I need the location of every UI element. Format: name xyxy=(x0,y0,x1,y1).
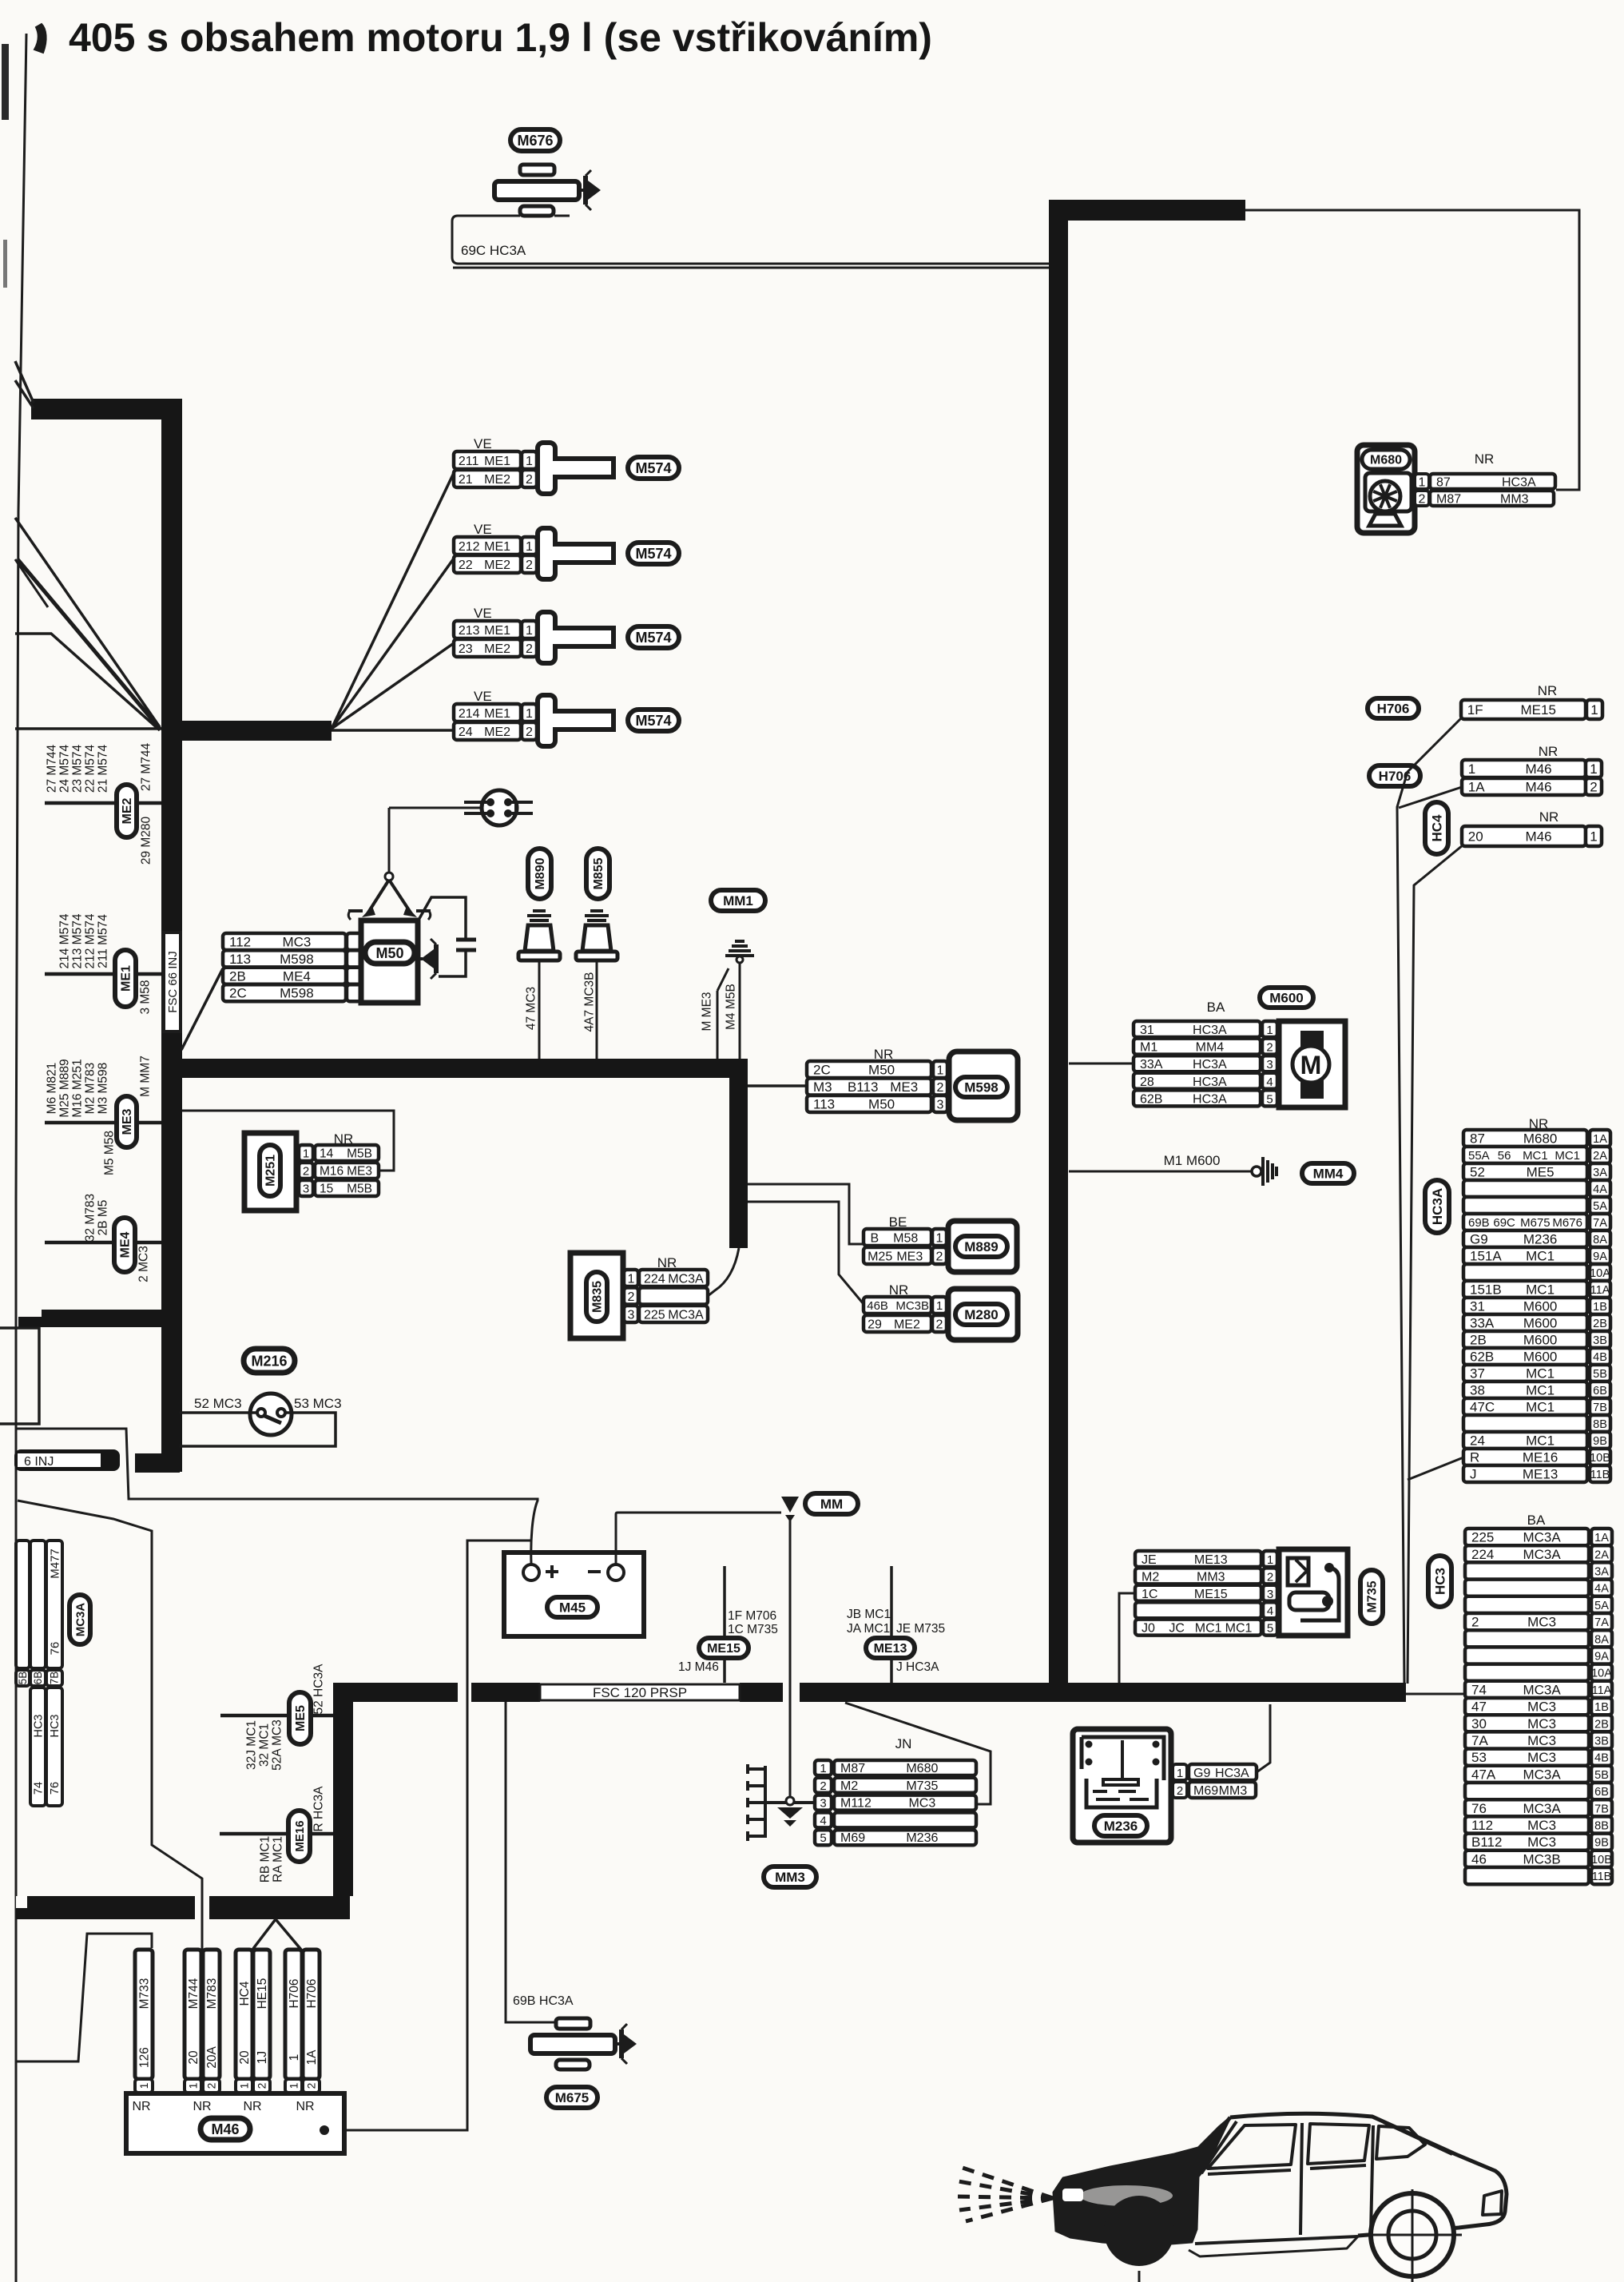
svg-text:3: 3 xyxy=(303,1183,309,1196)
connector ME16 with wire labels xyxy=(220,1832,333,1836)
svg-text:MC1: MC1 xyxy=(1225,1622,1253,1636)
spark plug M890 label oval xyxy=(528,849,551,899)
svg-text:NR: NR xyxy=(1538,683,1558,698)
svg-text:6B: 6B xyxy=(1593,1385,1607,1397)
wire M1 M600 to ground MM4 xyxy=(1069,1171,1253,1173)
svg-text:M680: M680 xyxy=(1370,454,1402,467)
svg-text:M25: M25 xyxy=(868,1250,892,1263)
svg-text:HC3A: HC3A xyxy=(1502,476,1536,490)
svg-text:225: 225 xyxy=(1471,1530,1494,1545)
HC3 table row 225 MC3A pin 1A xyxy=(1465,1529,1589,1545)
svg-text:33A: 33A xyxy=(1140,1058,1163,1071)
svg-text:1: 1 xyxy=(1267,1553,1273,1567)
M46 column HC4 20 pin1 xyxy=(236,1950,252,2079)
harness main left vertical bar xyxy=(161,399,182,1472)
svg-text:M50: M50 xyxy=(868,1063,895,1078)
svg-text:HC4: HC4 xyxy=(1429,814,1444,842)
connector ME13 xyxy=(890,1566,893,1683)
HC3A table row 151A MC1 pin 9A xyxy=(1463,1247,1587,1264)
svg-text:23: 23 xyxy=(459,642,473,656)
svg-text:5A: 5A xyxy=(1594,1600,1609,1612)
svg-text:20: 20 xyxy=(187,2050,201,2065)
component M675 label oval xyxy=(546,2087,598,2108)
wire M50 to capacitor xyxy=(418,897,466,938)
svg-text:1: 1 xyxy=(237,2082,250,2089)
svg-text:M46: M46 xyxy=(1526,829,1552,845)
HC3 table row 46 MC3B pin 10B xyxy=(1465,1851,1589,1867)
svg-text:M676: M676 xyxy=(1552,1216,1582,1230)
svg-text:76: 76 xyxy=(1471,1801,1487,1816)
connector ME4 with wire labels xyxy=(45,1241,161,1245)
svg-text:2: 2 xyxy=(526,559,533,572)
svg-text:62B: 62B xyxy=(1140,1092,1162,1106)
harness bar to injectors xyxy=(161,721,332,741)
connector ME5 with wire labels xyxy=(220,1714,333,1718)
svg-text:24 M574: 24 M574 xyxy=(58,744,71,793)
svg-text:ME2: ME2 xyxy=(484,473,510,487)
HC3 table row B112 MC3 pin 9B xyxy=(1465,1834,1589,1851)
svg-text:ME1: ME1 xyxy=(484,455,510,468)
wire FSC bar to JN row 3 xyxy=(845,1703,991,1804)
svg-text:M600: M600 xyxy=(1523,1299,1558,1314)
svg-text:ME1: ME1 xyxy=(484,540,510,554)
svg-text:M889: M889 xyxy=(964,1239,999,1254)
JN junction row M112 MC3 pin 3 xyxy=(815,1795,832,1811)
svg-text:NR: NR xyxy=(193,2100,211,2113)
M46 column H706 1A pin2 xyxy=(303,1950,320,2079)
component M236 fuel sender xyxy=(1073,1729,1171,1843)
svg-text:1: 1 xyxy=(526,455,533,468)
component M46 label oval xyxy=(201,2118,250,2140)
svg-text:M236: M236 xyxy=(1523,1232,1558,1247)
svg-text:ME5: ME5 xyxy=(294,1705,308,1731)
svg-text:5: 5 xyxy=(1267,1622,1273,1636)
injector 2 label oval M574 xyxy=(628,543,679,564)
svg-text:ME3: ME3 xyxy=(121,1108,134,1135)
svg-text:3 M58: 3 M58 xyxy=(138,980,152,1014)
svg-text:ME3: ME3 xyxy=(347,1165,372,1179)
HC3 table row 47A MC3A pin 5B xyxy=(1465,1766,1589,1783)
svg-text:M3: M3 xyxy=(813,1079,832,1095)
svg-text:MM3: MM3 xyxy=(775,1870,805,1885)
wire M733 hook to left edge xyxy=(16,1934,152,2061)
svg-text:M4 M5B: M4 M5B xyxy=(724,984,737,1030)
svg-text:212: 212 xyxy=(459,540,480,554)
svg-text:1C M735: 1C M735 xyxy=(728,1623,778,1636)
wire MM ground down to engine ground xyxy=(789,1516,792,1798)
wire M735 pin3 (1C ME15) to FSC bar xyxy=(1119,1593,1135,1683)
svg-text:225: 225 xyxy=(644,1309,665,1322)
svg-text:HE15: HE15 xyxy=(256,1978,269,2010)
svg-text:M46: M46 xyxy=(211,2121,239,2137)
connector ME1 with wire labels xyxy=(45,972,161,976)
svg-text:1C: 1C xyxy=(1142,1588,1157,1601)
component M676 (air temp sensor symbol) xyxy=(520,165,554,175)
svg-text:2: 2 xyxy=(936,1250,943,1263)
svg-text:2: 2 xyxy=(1419,493,1426,507)
svg-text:JC: JC xyxy=(1169,1622,1185,1636)
svg-text:1: 1 xyxy=(1590,702,1598,718)
svg-text:HC3A: HC3A xyxy=(1193,1075,1227,1089)
HC3 table row (blank) pin 8A xyxy=(1465,1630,1589,1647)
component M236 label oval xyxy=(1094,1815,1147,1836)
svg-text:ME2: ME2 xyxy=(484,642,510,656)
svg-text:47 MC3: 47 MC3 xyxy=(524,987,538,1030)
svg-text:M5B: M5B xyxy=(347,1183,372,1196)
svg-text:211: 211 xyxy=(459,455,479,468)
svg-text:MC3: MC3 xyxy=(1527,1835,1556,1850)
svg-text:20: 20 xyxy=(1468,829,1483,845)
svg-text:B: B xyxy=(871,1231,880,1245)
svg-text:MC3A: MC3A xyxy=(73,1603,87,1637)
svg-text:87: 87 xyxy=(1470,1131,1485,1147)
svg-text:224: 224 xyxy=(1471,1547,1494,1562)
wire to injector 1 xyxy=(332,473,454,729)
svg-text:JN: JN xyxy=(895,1736,912,1751)
wire 53 MC3 loop xyxy=(180,1413,336,1446)
svg-text:214 M574: 214 M574 xyxy=(58,913,71,968)
M889 wire row M25 ME3 pin 2 xyxy=(864,1247,931,1264)
M251 pin 2 row M16 ME3 xyxy=(299,1163,313,1179)
svg-text:NR: NR xyxy=(296,2100,314,2113)
svg-text:M680: M680 xyxy=(1523,1131,1558,1147)
distributor cap symbol xyxy=(482,790,517,825)
svg-text:MM4: MM4 xyxy=(1196,1041,1225,1055)
svg-text:1A: 1A xyxy=(305,2049,319,2065)
HC3A table row 38 MC1 pin 6B xyxy=(1463,1382,1587,1398)
svg-text:JE: JE xyxy=(1142,1553,1157,1567)
svg-text:53: 53 xyxy=(1471,1750,1487,1765)
wire from edge to junction horizontal xyxy=(15,727,161,730)
harness bar bottom-left horizontal xyxy=(27,1896,195,1919)
spark plug M890 xyxy=(527,911,551,920)
M735 wire row J0 JC MC1 MC1 pin 5 xyxy=(1135,1620,1261,1636)
connector M735 label oval xyxy=(1360,1570,1383,1624)
svg-text:4: 4 xyxy=(820,1814,826,1827)
injector 3 label oval M574 xyxy=(628,626,679,648)
HC3A table row 55A 56 MC1 MC1 pin 2A xyxy=(1463,1147,1587,1163)
svg-text:1: 1 xyxy=(936,1231,943,1245)
svg-text:3: 3 xyxy=(937,1099,944,1112)
svg-text:2: 2 xyxy=(526,726,533,739)
ground symbol MM1 xyxy=(725,941,754,956)
svg-text:74: 74 xyxy=(33,1782,46,1795)
HC3A table row 24 MC1 pin 9B xyxy=(1463,1432,1587,1449)
svg-text:MM4: MM4 xyxy=(1313,1166,1344,1181)
svg-text:NR: NR xyxy=(1539,809,1559,825)
HC3A table row 87 M680 pin 1A xyxy=(1463,1130,1587,1147)
wire to injector 2 xyxy=(332,559,454,729)
svg-text:M5 M58: M5 M58 xyxy=(102,1131,116,1175)
M280 wire row 46B MC3B pin 1 xyxy=(864,1297,931,1314)
svg-text:2B: 2B xyxy=(1594,1718,1609,1731)
svg-text:5B: 5B xyxy=(1593,1368,1607,1381)
svg-text:2: 2 xyxy=(526,473,533,487)
svg-text:JE M735: JE M735 xyxy=(896,1622,945,1636)
M46 column M783 20A pin2 xyxy=(203,1950,220,2079)
JN junction row M2 M735 pin 2 xyxy=(815,1778,832,1793)
svg-text:212 M574: 212 M574 xyxy=(83,913,97,968)
H706 wire row 1F ME15 pin 1 xyxy=(1461,700,1586,719)
M598 wire row M3 B113 ME3 pin 2 xyxy=(807,1079,931,1095)
engine ground comb connector xyxy=(764,1766,767,1838)
svg-text:M600: M600 xyxy=(1523,1350,1558,1365)
svg-text:2: 2 xyxy=(1266,1041,1273,1055)
M46 output node xyxy=(320,2125,329,2135)
svg-text:MC1: MC1 xyxy=(1526,1433,1555,1449)
component M251 box xyxy=(244,1133,296,1211)
headlight beam dashes xyxy=(956,2168,1053,2221)
svg-text:112: 112 xyxy=(229,935,251,950)
svg-text:MC3B: MC3B xyxy=(895,1299,929,1313)
svg-text:52: 52 xyxy=(1470,1165,1485,1180)
svg-text:8B: 8B xyxy=(1593,1418,1607,1431)
svg-text:M744: M744 xyxy=(187,1978,201,2009)
HC3 table row (blank) pin 6B xyxy=(1465,1783,1589,1799)
svg-text:2 MC3: 2 MC3 xyxy=(137,1246,150,1282)
svg-text:31: 31 xyxy=(1140,1024,1154,1037)
svg-text:M45: M45 xyxy=(559,1600,586,1615)
svg-text:6 INJ: 6 INJ xyxy=(24,1455,54,1469)
wire from harness to M50 table xyxy=(181,968,223,1050)
svg-text:FSC 66 INJ: FSC 66 INJ xyxy=(166,951,180,1013)
svg-text:214: 214 xyxy=(459,707,480,721)
svg-text:213 M574: 213 M574 xyxy=(70,913,84,968)
svg-text:3A: 3A xyxy=(1594,1566,1609,1579)
svg-text:1B: 1B xyxy=(1593,1301,1607,1314)
svg-text:M46: M46 xyxy=(1526,780,1552,795)
svg-text:52 MC3: 52 MC3 xyxy=(194,1396,242,1411)
svg-text:1: 1 xyxy=(526,707,533,721)
svg-text:151A: 151A xyxy=(1470,1249,1502,1264)
svg-text:2: 2 xyxy=(1471,1615,1479,1630)
svg-text:M46: M46 xyxy=(1526,761,1552,777)
svg-text:76: 76 xyxy=(48,1642,62,1656)
component M251 label oval xyxy=(260,1145,280,1196)
H706 wire row 1A M46 pin 2 xyxy=(1462,778,1586,795)
svg-text:M477: M477 xyxy=(48,1548,62,1579)
M46 column H706 1 pin1 xyxy=(285,1950,302,2079)
svg-text:4: 4 xyxy=(1266,1075,1273,1089)
svg-text:BA: BA xyxy=(1207,1000,1225,1015)
connector H706 label oval (1) xyxy=(1368,698,1419,718)
svg-text:1: 1 xyxy=(1177,1767,1183,1780)
svg-text:37: 37 xyxy=(1470,1366,1485,1382)
svg-text:5A: 5A xyxy=(1593,1200,1607,1213)
spark plug M855 xyxy=(585,911,609,920)
svg-text:2: 2 xyxy=(936,1318,943,1331)
FSC 120 PRSP label box xyxy=(540,1684,740,1700)
svg-text:1: 1 xyxy=(628,1273,635,1286)
distributor rotor joint xyxy=(385,873,393,881)
MC3A table upper columns (M477 76) xyxy=(16,1541,30,1668)
svg-text:4B: 4B xyxy=(1594,1752,1609,1765)
capacitor C xyxy=(456,938,476,942)
svg-text:ME16: ME16 xyxy=(1523,1450,1558,1465)
wire harness to M889 rows xyxy=(748,1184,864,1244)
svg-text:38: 38 xyxy=(1470,1383,1485,1398)
svg-text:33A: 33A xyxy=(1470,1316,1495,1331)
svg-text:J: J xyxy=(1470,1467,1477,1482)
svg-text:MC3B: MC3B xyxy=(1523,1851,1560,1867)
svg-text:R HC3A: R HC3A xyxy=(312,1786,325,1832)
injector 4 label oval M574 xyxy=(628,710,679,731)
svg-text:47A: 47A xyxy=(1471,1767,1496,1782)
battery M45 xyxy=(504,1552,644,1636)
svg-text:MC3: MC3 xyxy=(282,935,311,950)
JN junction row M87 M680 pin 1 xyxy=(815,1760,832,1775)
svg-text:M ME3: M ME3 xyxy=(700,992,713,1031)
HC3 table row 53 MC3 pin 4B xyxy=(1465,1749,1589,1766)
svg-text:MC3: MC3 xyxy=(1527,1733,1556,1748)
svg-text:M598: M598 xyxy=(280,986,314,1001)
svg-text:M1 M600: M1 M600 xyxy=(1164,1153,1221,1168)
M50 wire row 113 M598 xyxy=(223,950,346,967)
M598 wire row 113 M50 pin 3 xyxy=(807,1095,931,1112)
svg-text:M574: M574 xyxy=(635,713,671,729)
svg-text:29 M280: 29 M280 xyxy=(139,816,153,865)
svg-text:27 M744: 27 M744 xyxy=(45,744,58,793)
HC3A table row (blank) pin 10A xyxy=(1463,1264,1587,1281)
svg-text:MC3: MC3 xyxy=(1527,1615,1556,1630)
MC3A pin 6B xyxy=(30,1670,46,1686)
svg-text:M675: M675 xyxy=(555,2090,590,2105)
svg-text:M16: M16 xyxy=(320,1165,343,1179)
svg-text:FSC 120 PRSP: FSC 120 PRSP xyxy=(593,1685,687,1700)
M236 pin 2 row M69 MM3 xyxy=(1173,1782,1187,1798)
svg-text:21: 21 xyxy=(459,473,473,487)
svg-text:4A7 MC3B: 4A7 MC3B xyxy=(582,972,596,1032)
svg-text:211 M574: 211 M574 xyxy=(96,914,109,968)
component M889 label oval xyxy=(955,1236,1007,1257)
svg-text:405 s obsahem motoru 1,9 l (se: 405 s obsahem motoru 1,9 l (se vstřiková… xyxy=(69,15,932,60)
svg-text:M87: M87 xyxy=(1436,493,1461,507)
svg-text:32 M783: 32 M783 xyxy=(83,1194,97,1242)
harness bar left-bottom horizontal xyxy=(18,1317,162,1327)
wire battery plus feed xyxy=(15,1429,538,1564)
svg-text:G9: G9 xyxy=(1193,1767,1210,1780)
svg-text:MM3: MM3 xyxy=(1500,493,1529,507)
battery M45 label oval xyxy=(547,1597,598,1617)
svg-text:VE: VE xyxy=(474,689,492,704)
svg-text:MM: MM xyxy=(820,1497,843,1512)
svg-text:2: 2 xyxy=(1590,780,1597,795)
svg-text:ME5: ME5 xyxy=(1527,1165,1555,1180)
connector MC3A label oval xyxy=(69,1595,90,1644)
svg-text:ME1: ME1 xyxy=(120,965,133,992)
svg-text:9A: 9A xyxy=(1593,1250,1607,1263)
svg-text:11A: 11A xyxy=(1590,1284,1610,1297)
svg-text:RA MC1: RA MC1 xyxy=(271,1836,284,1882)
FSC 66 INJ box xyxy=(164,932,181,1032)
component M50 box xyxy=(361,920,418,1003)
svg-text:JB MC1: JB MC1 xyxy=(847,1608,891,1621)
svg-text:MC3: MC3 xyxy=(1527,1700,1556,1715)
wire from H706(1A M46) junction xyxy=(1399,787,1462,808)
harness bar top-left horizontal xyxy=(31,399,182,419)
wire harness to M251 xyxy=(182,1111,394,1171)
svg-text:10B: 10B xyxy=(1590,1452,1610,1465)
HC3 table row 224 MC3A pin 2A xyxy=(1465,1545,1589,1562)
svg-text:MC1: MC1 xyxy=(1195,1622,1222,1636)
svg-text:MC3A: MC3A xyxy=(1523,1682,1561,1697)
wire from H706(1F ME15) down to FSC bar xyxy=(1397,718,1461,1684)
svg-text:M600: M600 xyxy=(1523,1333,1558,1348)
svg-text:47: 47 xyxy=(1471,1700,1487,1715)
HC3 table row 2 MC3 pin 7A xyxy=(1465,1613,1589,1630)
ECU connector box partial (left edge) xyxy=(0,1328,39,1424)
svg-text:2: 2 xyxy=(204,2082,217,2089)
svg-text:M735: M735 xyxy=(906,1779,938,1793)
M46 column M733 126 pin1 xyxy=(135,1950,153,2079)
svg-text:5: 5 xyxy=(820,1831,826,1845)
svg-text:2A: 2A xyxy=(1593,1150,1607,1163)
svg-text:MC3: MC3 xyxy=(1527,1818,1556,1833)
svg-text:46B: 46B xyxy=(867,1299,888,1313)
svg-text:M574: M574 xyxy=(635,460,671,476)
svg-text:3: 3 xyxy=(1267,1588,1273,1601)
svg-text:3: 3 xyxy=(1266,1058,1273,1071)
svg-text:MM1: MM1 xyxy=(723,893,753,908)
svg-text:1: 1 xyxy=(936,1299,943,1313)
HC3 table row (blank) pin 10A xyxy=(1465,1664,1589,1681)
M680 pin 1 xyxy=(1415,474,1429,489)
svg-text:M733: M733 xyxy=(137,1978,151,2010)
ground symbol MM4 xyxy=(1252,1167,1261,1176)
M735 wire row JE ME13 pin 1 xyxy=(1135,1551,1261,1567)
distributor rotor arms xyxy=(367,880,389,915)
svg-text:3: 3 xyxy=(628,1309,635,1322)
M50 wire row 2C M598 xyxy=(223,984,346,1001)
svg-text:126: 126 xyxy=(137,2047,151,2068)
svg-text:MC1: MC1 xyxy=(1526,1249,1555,1264)
wire from edge to junction 1 xyxy=(15,518,160,727)
M280 wire row 29 ME2 pin 2 xyxy=(864,1315,931,1332)
svg-text:M600: M600 xyxy=(1269,990,1304,1005)
svg-text:32 MC1: 32 MC1 xyxy=(257,1723,271,1767)
svg-text:M50: M50 xyxy=(375,945,403,961)
M251 pin 1 row 14 M5B xyxy=(299,1145,313,1161)
svg-text:M598: M598 xyxy=(964,1079,999,1095)
svg-text:4A: 4A xyxy=(1594,1583,1609,1596)
svg-text:M2 M783: M2 M783 xyxy=(83,1063,97,1115)
svg-text:HC3A: HC3A xyxy=(1193,1024,1227,1037)
svg-text:1F: 1F xyxy=(1467,702,1483,718)
M680 wire row 87 HC3A xyxy=(1430,474,1555,489)
HC3A table row R ME16 pin 10B xyxy=(1463,1449,1587,1465)
svg-text:2B M5: 2B M5 xyxy=(96,1200,109,1236)
wire to injector 3 xyxy=(332,643,454,729)
svg-text:55A: 55A xyxy=(1468,1149,1490,1163)
svg-text:7B: 7B xyxy=(49,1672,61,1685)
component M598 label oval xyxy=(955,1077,1007,1097)
svg-text:M783: M783 xyxy=(205,1978,219,2010)
svg-text:ME13: ME13 xyxy=(1523,1467,1558,1482)
svg-text:MC1: MC1 xyxy=(1526,1366,1555,1382)
wire from FSC bar to HC3 table xyxy=(1406,1693,1465,1696)
HC3A table row 2B M600 pin 3B xyxy=(1463,1331,1587,1348)
svg-text:20A: 20A xyxy=(205,2046,219,2069)
svg-text:ME3: ME3 xyxy=(890,1079,918,1095)
svg-text:HC3: HC3 xyxy=(33,1714,46,1737)
svg-text:4: 4 xyxy=(1267,1604,1273,1618)
svg-text:J HC3A: J HC3A xyxy=(896,1660,939,1674)
svg-text:RB MC1: RB MC1 xyxy=(258,1836,272,1883)
JN junction row M69 M236 pin 5 xyxy=(815,1830,832,1845)
HC3 table row 74 MC3A pin 11A xyxy=(1465,1681,1589,1698)
svg-text:11A: 11A xyxy=(1592,1684,1612,1697)
M835 pin 3 row 225 MC3A xyxy=(624,1306,638,1322)
